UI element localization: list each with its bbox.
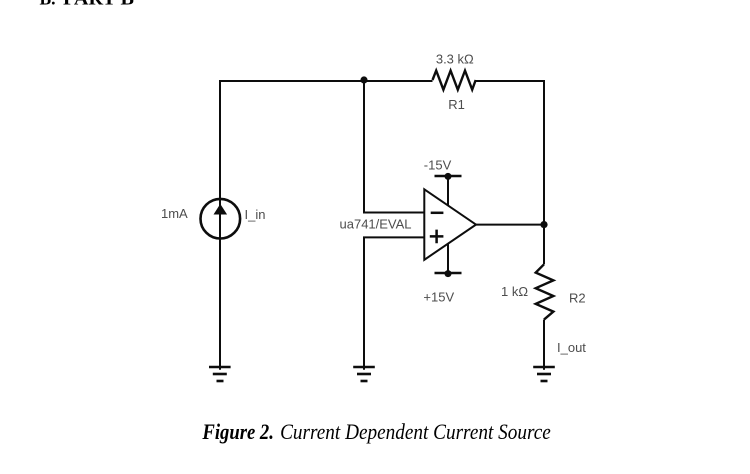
op-amp inverting input minus sign xyxy=(431,212,444,215)
svg-text:+15V: +15V xyxy=(423,290,454,305)
wire non-inverting input branch to ground xyxy=(364,237,425,369)
svg-text:ua741/EVAL: ua741/EVAL xyxy=(340,217,412,232)
wire right vertical upper (feedback) xyxy=(543,80,545,264)
op-amp non-inverting input plus sign xyxy=(430,230,444,244)
svg-text:1mA: 1mA xyxy=(161,206,188,221)
op-amp U1 ua741/EVAL triangle xyxy=(424,189,476,259)
svg-text:Figure 2.: Figure 2. xyxy=(202,419,274,444)
svg-text:Current Dependent Current Sour: Current Dependent Current Source xyxy=(280,419,551,444)
wire left vertical branch xyxy=(219,80,221,370)
supply -15V rail bar xyxy=(435,175,462,178)
junction node inverting branch / top wire xyxy=(360,76,367,83)
resistor R1 zigzag xyxy=(433,71,476,90)
supply +15V stub xyxy=(447,241,449,274)
supply -15V stub xyxy=(447,176,449,208)
svg-text:R1: R1 xyxy=(448,97,465,112)
wire op-amp output xyxy=(476,224,544,226)
svg-text:I_in: I_in xyxy=(245,207,266,222)
resistor R2 zigzag xyxy=(536,264,554,319)
supply +15V terminal dot xyxy=(445,270,452,277)
supply +15V rail bar xyxy=(435,272,462,275)
ground (right, R2) xyxy=(533,367,555,381)
svg-text:PART B: PART B xyxy=(63,0,134,8)
wire inverting input branch xyxy=(364,80,425,213)
svg-text:R2: R2 xyxy=(569,291,586,306)
ground (middle, non-inverting input) xyxy=(353,367,375,381)
junction node output / right branch xyxy=(540,221,547,228)
wire top horizontal right (R1 to right branch) xyxy=(476,80,546,82)
supply -15V terminal dot xyxy=(445,173,452,180)
svg-text:I_out: I_out xyxy=(557,340,586,355)
svg-text:3.3 kΩ: 3.3 kΩ xyxy=(436,51,474,66)
svg-text:-15V: -15V xyxy=(424,158,452,173)
wire top horizontal left (current source to R1) xyxy=(220,80,433,82)
ground (left, current source) xyxy=(209,367,231,381)
wire right vertical lower (R2 to ground) xyxy=(543,320,545,370)
current source I1 1mA xyxy=(201,199,241,239)
svg-text:1 kΩ: 1 kΩ xyxy=(501,284,528,299)
heading B. PART B (cut off at top) xyxy=(40,0,135,8)
svg-text:B.: B. xyxy=(40,0,56,8)
